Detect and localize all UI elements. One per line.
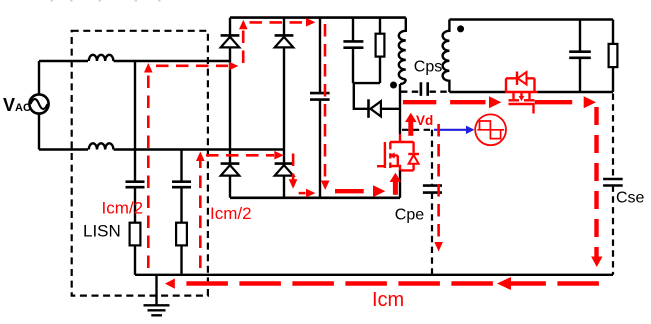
capacitor C2 [172,182,191,188]
diode D5 clamp [369,99,381,118]
current path Icm thick top dash1 [403,100,436,104]
inductor L1 top choke [89,55,114,61]
wire clamp to drain [381,108,400,110]
transistor Q1 body diode [409,155,419,164]
capacitor Cpe dashed lead lower [431,193,433,275]
arrow right into bridge leg2 [274,151,283,160]
svg-text:Icm: Icm [372,289,404,311]
wire dashed drain to Cpe horizontal [402,129,432,131]
transformer T1 secondary winding [443,20,450,93]
resistor Rsn snubber [376,34,385,57]
wire snubber res lower [379,57,381,84]
capacitor Cps dashed lead right [430,90,449,92]
transistor Q2 SR MOSFET [505,72,538,114]
wire snubber cap lower [352,48,354,83]
diode D3 [221,164,240,176]
wire load lower [612,67,614,92]
current path down bulk cap branch [324,24,327,179]
thick arrow Vd up [405,113,417,136]
current path Icm thick top dash2 [450,100,485,104]
wire LISN branch1 upper [134,61,136,182]
transistor Q1 body arrow [389,152,394,158]
current path Icm thick top dash3 [535,100,573,104]
transformer T1 primary winding [399,18,406,80]
wire clamp down [354,82,369,109]
thick arrow left mid bottom [497,277,511,290]
wire secondary top rail [449,18,613,21]
thick arrow down right side [591,257,602,268]
diode D1 [221,35,240,47]
source pulse waveform circle [475,114,506,145]
svg-text:Cpe: Cpe [395,206,424,223]
LISN dashed box [72,31,208,296]
transistor Q2 body diode [518,72,527,84]
current path Icm thick right vertical [594,107,598,258]
capacitor Cse dashed lead lower [612,186,614,275]
wire LISN branch1 lower [134,245,136,274]
transistor Q2 down arrow [519,96,525,101]
source VAC circle [29,94,48,113]
wire bulk cap upper [319,18,321,94]
svg-text:Cps: Cps [414,58,442,75]
arrow right along bottom rail [306,189,315,198]
diode D2 [275,35,294,47]
wire LISN branch2 upper [180,150,182,182]
wire bulk cap lower [319,100,321,198]
current path Icm/2 up LISN branch2 [199,161,202,268]
arrow up below top rail [239,20,248,30]
current path bridge left up [242,28,245,63]
resistor R2 [176,223,187,246]
wire VAC bottom stub [38,114,40,150]
thick arrow right before corner [584,96,596,108]
current path Icm/2 up LISN branch1 [147,72,150,268]
wire LISN branch2 middle [180,187,182,223]
arrow down bulk branch [321,181,330,191]
current path bridge right down [292,154,295,180]
wire output cap upper [579,20,581,52]
arrow up at top wire [144,63,153,73]
wire load upper [612,20,614,44]
thick arrow right mid secondary [489,96,501,108]
capacitor Cps dashed lead left [401,90,419,92]
resistor R1 [130,223,141,246]
capacitor Cps plates [421,82,428,96]
capacitor Cse plates [603,179,623,186]
wire top line right [114,60,231,62]
source VAC sine [31,99,48,109]
thick arrow left to ground [165,279,175,289]
arrow right along top rail [306,18,315,27]
thick arrow right to MOSFET [373,185,385,197]
capacitor C1 [126,182,145,188]
wire bridge left leg [229,18,231,198]
wire ground bus bottom [135,274,613,276]
current path Icm thick bottom long [186,281,604,286]
arrow up branch2 [196,152,205,162]
capacitor Cpe dashed lead upper [431,130,433,185]
wire ground stub [155,275,157,305]
svg-text:LISN: LISN [83,222,121,241]
current path along top rail [250,21,307,24]
svg-text:Cse: Cse [616,189,645,206]
blue arrow Vd pointer [434,126,475,134]
cropped text remnants top edge [51,0,161,2]
wire DC bottom rail [230,197,400,200]
arrow right into bridge [229,62,238,71]
wire DC top rail [230,16,406,19]
capacitor Co output [569,52,591,58]
primary dot [390,82,397,89]
wire bottom line left [39,148,88,150]
wire output cap lower [579,58,581,92]
wire bottom line right [114,148,285,150]
svg-text:VAC: VAC [3,95,31,115]
wire secondary bottom rail right [538,91,614,94]
current path Icm thick bottom dash [335,189,364,193]
arrow down bridge leg2 [289,179,298,189]
current path Cpe down red [437,124,440,241]
wire drain vertical [399,84,401,134]
svg-text:Icm/2: Icm/2 [210,204,252,223]
capacitor Csn snubber [343,41,363,47]
current path to bridge top horizontal [156,65,228,68]
wire VAC top stub [38,61,40,95]
diode D4 [275,164,294,176]
wire source lead [399,170,401,197]
svg-text:Vd: Vd [416,113,433,128]
capacitor Cse dashed lead upper [612,94,614,179]
transistor Q1 primary MOSFET [377,134,419,170]
secondary dot [457,25,464,32]
ground symbol [144,305,170,315]
capacitor C3 bulk [310,93,330,100]
capacitor Cpe plates [423,186,442,193]
current path along bottom rail short [299,192,306,195]
wire primary tail [400,79,406,84]
resistor RL load [609,44,618,67]
wire top line left [39,60,88,62]
wire snubber cap upper [352,18,354,42]
svg-text:Icm/2: Icm/2 [102,199,144,218]
thick arrow up into source [390,173,402,195]
wire secondary bottom rail left [449,91,505,94]
inductor L2 bottom choke [89,143,114,149]
wire bridge right leg [283,18,285,198]
current path to bridge bottom horizontal [206,154,274,157]
arrow down Cpe path [434,242,443,252]
wire LISN branch2 lower [180,245,182,274]
wire snubber res upper [379,18,381,34]
wire LISN branch1 middle [134,187,136,223]
wire snubber bottom [353,82,380,84]
